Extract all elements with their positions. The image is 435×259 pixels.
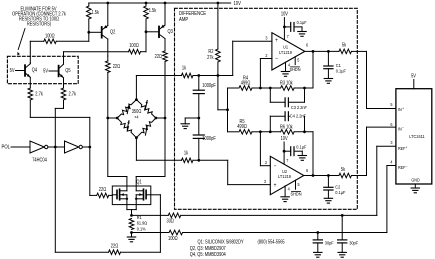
svg-text:LT1219: LT1219 [278,173,291,179]
svg-text:1k: 1k [184,150,189,156]
svg-text:1000pF: 1000pF [202,83,216,89]
svg-text:22Ω: 22Ω [155,53,163,59]
capacitor 1000pF (lower) [193,118,216,160]
capacitor C3 2.2nF [270,88,311,110]
transistor Q4 (NPN) with 5V base [10,63,38,88]
wire: to LTC2411 IN+ [367,51,396,108]
resistor 22Ω (Q1 right gate) [55,147,160,255]
bridge 350Ω ×4 strain gauges [106,98,166,139]
resistor 2.7k (Q4 emitter) [28,88,90,147]
svg-text:10V: 10V [281,136,289,142]
wire: R2 node to R4/R5 junction [218,76,229,132]
dashed box: difference amp [175,8,358,209]
annotation arrow to dashed box [17,29,25,56]
ground (LTC2411 GND) [411,184,419,193]
svg-text:C3 2.2nF: C3 2.2nF [291,105,307,111]
svg-text:C2: C2 [335,184,340,190]
resistor 5k (U2 output) [339,167,367,178]
svg-text:100Ω: 100Ω [45,33,55,39]
svg-text:2.7k: 2.7k [35,91,43,97]
svg-text:22Ω: 22Ω [99,187,107,193]
wire: left drain path [108,118,127,186]
U1 pin 7 supply 10V [281,11,289,40]
svg-text:AMP: AMP [179,16,188,23]
transistor Q1 (dual MOSFET Si9802DY) [112,179,151,215]
svg-text:Q1: Q1 [136,179,142,185]
U1 pin 4 ground [281,62,290,76]
svg-text:100Ω: 100Ω [129,43,139,49]
svg-text:GND: GND [411,177,419,183]
wire: to U1 pin 3 [233,41,272,75]
svg-text:100Ω: 100Ω [168,235,178,241]
wire: bridge top to 1k (upper) [136,76,181,100]
svg-text:+: + [406,145,408,149]
capacitor C1 0.1µF [324,51,346,78]
svg-text:1.5k: 1.5k [92,10,100,16]
wire: right drain path [136,118,165,186]
svg-text:Q2, Q3: MMBD2907: Q2, Q3: MMBD2907 [190,245,226,251]
svg-text:IN: IN [398,106,402,112]
svg-text:10V: 10V [281,11,289,17]
svg-text:0.1µF: 0.1µF [336,68,346,74]
svg-text:30pF: 30pF [349,240,358,246]
ground (30pF right) [338,252,346,257]
svg-text:61.9Ω: 61.9Ω [137,220,148,226]
capacitor 1000pF (upper) [193,76,216,119]
svg-text:R2: R2 [208,49,213,55]
svg-text:REF: REF [398,146,406,152]
dashed box around Q4/Q5 (2.7k option) [7,56,78,83]
svg-text:350Ω: 350Ω [132,109,142,115]
svg-text:27k: 27k [207,54,214,60]
resistor R3 10k [260,80,313,90]
svg-text:(800) 554-5565: (800) 554-5565 [258,239,286,245]
svg-text:Q4: Q4 [32,67,38,73]
wire: to LTC2411 IN- [367,127,396,175]
svg-text:−: − [275,56,278,63]
svg-text:Q4, Q5: MMBD3904: Q4, Q5: MMBD3904 [190,252,226,258]
svg-text:REF: REF [398,165,406,171]
ground (R1) [127,233,135,242]
wire: U1 feedback [312,51,314,88]
ground (30pF left) [314,252,322,257]
resistor 1.5k (Q3 base) [144,3,157,32]
wire: U2 pin 2 node [260,132,270,166]
svg-text:30pF: 30pF [325,240,334,246]
svg-text:+: + [275,38,278,45]
ground (C2) [324,198,332,203]
svg-text:0.1µF: 0.1µF [297,20,307,26]
U1 pin 5 SHDN [289,57,300,72]
svg-text:0.1%: 0.1% [137,226,146,232]
resistor R2 27k [207,3,220,76]
transistor Q3 (PNP) [145,3,174,46]
transistor Q2 (PNP) [87,3,115,56]
svg-text:10V: 10V [234,0,242,7]
svg-text:×4: ×4 [134,114,139,120]
svg-text:LTC2411: LTC2411 [409,134,425,140]
svg-text:499Ω: 499Ω [241,80,251,86]
svg-text:−: − [274,163,277,170]
inverter 74HC04 (second) [55,141,90,153]
capacitor 0.1µF (U1 bypass) [284,20,306,32]
capacitor 30pF (REF-) [313,233,334,253]
resistor R6 10k [260,124,313,134]
ground (U1 bypass) [298,32,306,37]
svg-text:499Ω: 499Ω [237,124,247,130]
wire: bridge bottom to 1k (lower) [136,138,181,161]
svg-text:0.1µF: 0.1µF [296,144,306,150]
capacitor C2 0.1µF [324,176,346,199]
wire: U1 output [305,42,339,53]
resistor 100Ω (Q4 collector to Q2 base) [30,32,89,62]
svg-text:5k: 5k [342,42,347,48]
wire: U2 feedback [312,132,314,176]
input POL [2,144,31,151]
op-amp U1 LT1219 [265,33,304,70]
note: eliminate-for-5V instruction [12,6,66,27]
svg-text:5k: 5k [341,167,346,173]
resistor 22Ω (right bridge drive) [155,46,168,118]
inverter 74HC04 (first) [30,141,55,162]
svg-text:−: − [402,126,404,130]
svg-text:DIFFERENCE: DIFFERENCE [179,11,207,18]
resistor 22Ω (left bridge drive) [106,56,121,118]
svg-text:Q3: Q3 [168,29,174,35]
svg-text:22Ω: 22Ω [111,243,119,249]
resistor 100Ω and REF- line [132,166,396,241]
svg-text:1k: 1k [182,65,187,71]
svg-text:5V: 5V [10,68,16,74]
node A (inverter1 output) [54,146,57,149]
resistor R1 61.9Ω 0.1% [129,214,148,234]
transistor Q5 (NPN) with 5V base [43,64,71,88]
node B (inverter2 output) [88,146,91,149]
resistor 1k (lower) [181,150,227,163]
svg-text:IN: IN [398,126,402,132]
svg-text:RESISTORS): RESISTORS) [27,21,52,27]
note: transistor part numbers [190,239,285,257]
svg-text:R3 10k: R3 10k [280,80,293,86]
U2 pin 5 SHDN [290,180,301,196]
capacitor 30pF (REF+) [338,215,359,252]
ground (C1) [324,79,332,84]
svg-text:Q1: SILICONIX Si9802DY: Q1: SILICONIX Si9802DY [198,239,244,245]
svg-text:Q5: Q5 [65,68,71,74]
IC LTC2411 [390,89,431,184]
ground (RC filter midpoint) [181,117,200,129]
svg-text:LT1219: LT1219 [279,49,292,55]
svg-text:Q2: Q2 [110,29,116,35]
U2 pin 7 supply 10V [281,136,289,164]
svg-text:C1: C1 [336,63,341,69]
wire: U2 output [304,168,339,177]
resistor R4 499Ω [228,75,262,90]
resistor 5k (U1 output) [339,42,367,54]
svg-text:1.5k: 1.5k [149,8,157,14]
svg-text:5V: 5V [43,68,49,74]
resistor R5 499Ω [228,119,262,134]
svg-text:74HC04: 74HC04 [32,157,47,163]
resistor 1.5k (Q2 base) [87,3,100,32]
power rail 10V [89,0,242,7]
ground (U2 bypass) [298,156,306,161]
op-amp U2 LT1219 [264,156,304,194]
svg-text:22Ω: 22Ω [113,63,121,69]
svg-text:POL: POL [2,144,11,151]
U2 pin 4 ground [281,186,290,202]
resistor 2.7k (Q5 emitter) [55,88,76,147]
capacitor C4 2.2nF [270,112,310,132]
svg-text:2.7k: 2.7k [69,91,77,97]
LTC2411 5V supply [411,73,417,89]
svg-text:+: + [274,183,277,190]
resistor 33Ω and REF+ line [132,146,396,223]
wire: to U2 pin 3 [228,160,271,184]
svg-text:−: − [406,164,408,168]
svg-text:33Ω: 33Ω [167,218,175,224]
svg-text:R6 10k: R6 10k [280,124,293,130]
svg-text:+: + [402,106,404,110]
wire: U1 pin 2 feedback node [260,59,272,89]
svg-text:0.1µF: 0.1µF [335,190,345,196]
svg-text:C4 2.2nF: C4 2.2nF [290,113,306,119]
capacitor 0.1µF (U2 bypass) [284,144,306,156]
resistor 22Ω (Q1 left gate) [90,147,113,198]
resistor 1k (upper) [181,65,232,78]
resistor 100Ω (Q5 collector to Q3 base) [64,32,147,64]
svg-text:5V: 5V [411,73,417,79]
